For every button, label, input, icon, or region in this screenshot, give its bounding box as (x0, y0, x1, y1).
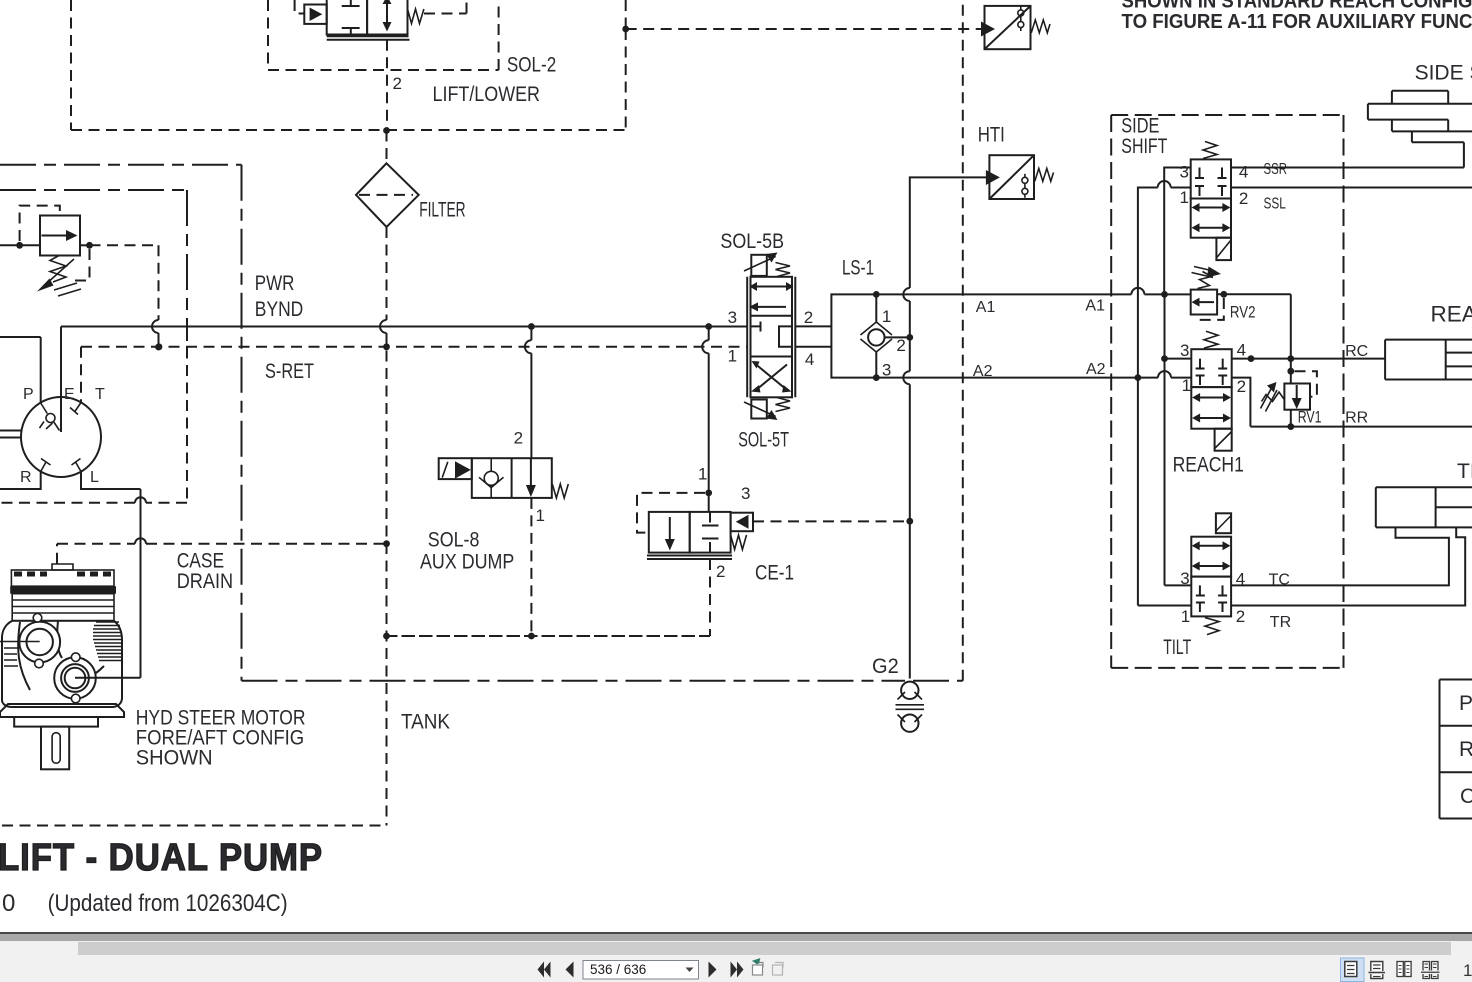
svg-text:536 / 636: 536 / 636 (590, 962, 646, 977)
wire side shift port 3 (1164, 168, 1191, 295)
enclosure steering phantom box inner (0, 190, 187, 503)
pressure switch HTI (986, 155, 1034, 199)
svg-text:A2: A2 (1086, 361, 1106, 378)
valve SOL-8 aux dump (439, 458, 552, 498)
label A2 left (973, 363, 993, 380)
solenoid SOL-2 pilot box (304, 5, 326, 24)
valve TILT (1191, 537, 1231, 617)
cylinder TILT (1376, 487, 1472, 527)
wire RV1 pilot dashed (1295, 371, 1317, 397)
wire pilot riser x=625.7 (625, 0, 627, 130)
junction S-RET / filter line (383, 343, 390, 350)
svg-text:SHOWN: SHOWN (136, 747, 213, 770)
svg-text:4: 4 (805, 350, 814, 369)
wire reach1 port 2 to RR (1232, 378, 1251, 427)
solenoid reach1 (1215, 429, 1232, 451)
wire pilot dashed to HTI top (626, 28, 981, 30)
label LS-1 (842, 257, 874, 280)
wire CE-1 port 1 (702, 323, 712, 512)
svg-text:PWR: PWR (255, 272, 295, 295)
wire tilt port 1 (1138, 378, 1191, 606)
enclosure SIDE SHIFT boundary (1111, 115, 1343, 668)
label REACH1 (1173, 454, 1244, 477)
valve CE-1 (647, 512, 732, 559)
spring HTI (1035, 168, 1054, 181)
filter F1 (356, 163, 419, 227)
spring side shift valve (1203, 142, 1217, 159)
label S-RET (265, 360, 314, 383)
valve SOL-2 body (327, 0, 408, 35)
steering check element (40, 403, 60, 431)
wire relief outlet (80, 242, 93, 249)
wire LS-1 bracket (831, 294, 876, 377)
svg-text:LS-1: LS-1 (842, 257, 874, 280)
motor M1 right boss (54, 653, 96, 703)
steering L port tick (72, 459, 82, 472)
relief valve RV1 (1284, 384, 1310, 410)
side shift carriage (1368, 91, 1472, 142)
label G2 (872, 655, 899, 678)
steering unit circle (21, 397, 101, 477)
wire steering T port dashed (80, 347, 82, 403)
layout icon continuous (1369, 962, 1386, 979)
label A2 right (1086, 361, 1106, 378)
button last page (731, 962, 744, 978)
label TILT title (1457, 460, 1472, 483)
wire tank header dashed y=636 (383, 633, 710, 640)
svg-text:1: 1 (1182, 376, 1191, 395)
motor M1 hyd steer motor top cap (11, 564, 114, 586)
label revision (2, 890, 288, 917)
label REACH title (1431, 302, 1472, 327)
wire dashed SOL-2 group lower rail (71, 129, 626, 131)
steering T port tick (70, 403, 81, 415)
steering R port tick (41, 459, 51, 472)
junction LS-1 ports (873, 291, 913, 381)
svg-text:RV1: RV1 (1298, 408, 1322, 427)
wire G2 line (903, 177, 989, 678)
motor M1 left boss (0, 614, 60, 668)
wire RR (1250, 426, 1472, 428)
wire SSL (1231, 187, 1472, 189)
motor M1 shaft (41, 727, 69, 770)
svg-text:LIFT/LOWER: LIFT/LOWER (433, 83, 541, 106)
wire SSR (1231, 142, 1464, 167)
wire RC (1232, 355, 1385, 362)
solenoid CE-1 pilot (731, 513, 753, 532)
button next page (709, 962, 717, 978)
wire relief inlet (0, 242, 40, 249)
motor M1 base (0, 704, 124, 727)
label TANK (401, 711, 450, 734)
svg-text:RC: RC (1345, 343, 1368, 360)
label LS-1 ports (882, 307, 906, 379)
label LIFT/LOWER (433, 83, 541, 106)
svg-text:SOL-5B: SOL-5B (720, 230, 784, 253)
label SOL-8 AUX DUMP (420, 529, 514, 574)
button previous view (753, 959, 764, 975)
spring relief adjustable (37, 256, 81, 297)
svg-text:TANK: TANK (401, 711, 450, 734)
layout icon two pages (1397, 962, 1411, 977)
wire PWR BYND main (61, 326, 748, 328)
wire SOL-8 port 1 dashed (530, 498, 532, 636)
wire steering L line (75, 472, 141, 678)
svg-text:1: 1 (882, 307, 891, 326)
svg-text:RE: RE (1459, 738, 1472, 761)
svg-text:TILT: TILT (1163, 636, 1191, 659)
spring RV2 adjustable (1192, 267, 1222, 289)
svg-text:1: 1 (1463, 961, 1472, 980)
gauge port G2 symbol (896, 682, 925, 732)
valve SOL-5B/5T body (747, 277, 795, 398)
svg-text:PR: PR (1459, 692, 1472, 715)
shuttle valve LS-1 (861, 294, 910, 377)
label title LIFT - DUAL PUMP (0, 837, 323, 879)
label A1 right (1085, 298, 1105, 315)
wire side shift port 1 / SSL left (1138, 181, 1191, 378)
label SOL-2 port 2 (393, 74, 402, 93)
label SSR (1264, 161, 1288, 178)
wire CASE DRAIN dashed (57, 538, 390, 564)
svg-text:3: 3 (882, 360, 891, 379)
svg-text:SIDE SHIFT: SIDE SHIFT (1415, 61, 1472, 84)
label header bold line1 (1122, 0, 1472, 13)
svg-text:AUX DUMP: AUX DUMP (420, 551, 514, 574)
svg-text:DRAIN: DRAIN (177, 570, 233, 593)
valve SOL-5B/5T solenoid bottom (744, 400, 778, 421)
wire SOL-5 port 2 (795, 325, 831, 327)
svg-text:SOL-8: SOL-8 (428, 529, 480, 552)
label header bold line2 (1122, 11, 1472, 33)
svg-text:2: 2 (896, 336, 905, 355)
svg-text:CA: CA (1460, 785, 1472, 808)
wire dashed riser top-left (70, 0, 72, 130)
label CE-1 ports (698, 465, 750, 582)
motor M1 casting body (2, 621, 122, 707)
junction SOL-2 rail / pilot riser (622, 26, 629, 33)
svg-text:A1: A1 (1085, 298, 1105, 315)
label SSL (1264, 196, 1286, 213)
enclosure SOL-2 group dashed box (268, 0, 499, 70)
solenoid side shift (1216, 238, 1231, 260)
svg-text:S-RET: S-RET (265, 360, 314, 383)
svg-text:SOL-2: SOL-2 (507, 54, 556, 77)
label SOL-5B (720, 230, 784, 253)
filter line dashed riser (380, 131, 387, 826)
label tilt ports (1180, 569, 1245, 626)
svg-text:A2: A2 (973, 363, 993, 380)
motor M1 upper body (12, 594, 114, 621)
table legend bottom right (1440, 680, 1472, 819)
junction filter line / SOL-2 rail (383, 127, 390, 134)
valve SOL-5B/5T solenoid top (744, 253, 778, 276)
layout icon single page active (1341, 958, 1365, 982)
svg-text:HTI: HTI (978, 124, 1005, 147)
zoom level text (1463, 961, 1472, 980)
spring SOL-2 (408, 9, 424, 24)
spring top box (1031, 20, 1050, 33)
wire CE-1 pilot loop dashed (637, 493, 705, 533)
svg-text:L: L (90, 469, 99, 486)
enclosure steering phantom box outer (0, 0, 963, 681)
motor M1 seal band (10, 586, 116, 594)
spring SOL-8 (552, 484, 568, 498)
svg-text:FILTER: FILTER (419, 199, 465, 222)
wire TC (1231, 527, 1449, 585)
valve SIDE SHIFT (1191, 159, 1231, 237)
junction A1 at reach feed (1161, 291, 1168, 298)
svg-text:LIFT - DUAL PUMP: LIFT - DUAL PUMP (0, 837, 323, 879)
label A1 left (976, 299, 996, 316)
svg-text:2: 2 (804, 308, 813, 327)
label SOL-5T (738, 429, 789, 452)
svg-text:2: 2 (1236, 607, 1245, 626)
page number field (583, 961, 699, 980)
relief valve RV2 (1191, 290, 1217, 315)
svg-text:2: 2 (716, 562, 725, 581)
wire A2 main (876, 371, 1190, 377)
wire reach1 port 3 (1161, 355, 1191, 362)
steering wheel shaft (0, 431, 22, 438)
wire steering R line (0, 472, 41, 490)
pressure switch top box (981, 6, 1031, 49)
layout icon two page continuous (1421, 962, 1440, 979)
spring tilt valve (1205, 618, 1219, 635)
wire SOL-2 pilot dashed left (295, 0, 305, 14)
svg-text:SSR: SSR (1264, 161, 1288, 178)
label SIDE SHIFT title (1415, 61, 1472, 84)
svg-text:1: 1 (728, 346, 737, 365)
svg-text:REACH1: REACH1 (1173, 454, 1244, 477)
label SIDE SHIFT (1121, 115, 1167, 158)
label RV2 (1230, 303, 1256, 322)
valve SOL-2 underplate (327, 36, 410, 40)
wire relief spring drain dashed (72, 249, 90, 281)
wire CE-1 port 3 pilot dashed (753, 520, 910, 522)
label SOL-5 ports (728, 308, 815, 369)
spring SOL-5T (776, 398, 791, 412)
wire RV2 outlet (1217, 291, 1291, 359)
svg-text:0: 0 (2, 890, 15, 917)
valve REACH1 (1191, 349, 1231, 429)
wire TR (1231, 527, 1465, 605)
label CASE DRAIN (177, 549, 233, 593)
svg-text:4: 4 (1237, 341, 1246, 360)
label RR (1345, 410, 1368, 427)
label TILT (1163, 636, 1191, 659)
svg-text:3: 3 (1180, 341, 1189, 360)
label TC TR (1269, 572, 1292, 631)
label RC (1345, 343, 1368, 360)
label RV1 (1298, 408, 1322, 427)
svg-text:RR: RR (1345, 410, 1368, 427)
svg-text:3: 3 (728, 308, 737, 327)
button first page (538, 962, 551, 978)
svg-text:E: E (64, 386, 75, 403)
wire relief drain dashed (90, 245, 162, 350)
wire SOL-5 port 4 (795, 346, 831, 348)
wire SOL-8 port 2 (525, 323, 535, 458)
svg-text:T: T (95, 386, 105, 403)
label steering ports (20, 386, 105, 486)
wire tilt port 3 (1165, 584, 1192, 586)
spring reach1 valve (1204, 331, 1218, 348)
button next view disabled (773, 963, 784, 976)
svg-text:1: 1 (698, 465, 707, 484)
svg-text:2: 2 (393, 74, 402, 93)
svg-text:SHIFT: SHIFT (1121, 135, 1167, 158)
svg-text:TILT: TILT (1457, 460, 1472, 483)
svg-text:3: 3 (1180, 162, 1189, 181)
solenoid tilt (1216, 513, 1231, 533)
label SOL-8 port 1 (536, 506, 545, 525)
svg-text:G2: G2 (872, 655, 899, 678)
label reach1 ports (1180, 341, 1246, 396)
wire RV2 pilot dashed (1199, 298, 1224, 320)
svg-text:TO FIGURE A-11 FOR AUXILIARY F: TO FIGURE A-11 FOR AUXILIARY FUNCTIONS (1122, 11, 1472, 33)
svg-text:SOL-5T: SOL-5T (738, 429, 789, 452)
label HYD STEER MOTOR (136, 707, 306, 770)
label SOL-8 port 2 (514, 429, 523, 448)
svg-text:1: 1 (1181, 607, 1190, 626)
junction A2 at tilt feed (1135, 374, 1142, 381)
svg-text:3: 3 (741, 484, 750, 503)
button previous page (566, 962, 574, 978)
enclosure TANK bottom dashed (2, 825, 387, 827)
svg-text:CE-1: CE-1 (755, 562, 794, 585)
svg-text:(Updated from 1026304C): (Updated from 1026304C) (48, 890, 288, 917)
svg-text:1: 1 (1180, 188, 1189, 207)
svg-text:TR: TR (1270, 614, 1291, 631)
label FILTER (419, 199, 465, 222)
label SOL-2 (507, 54, 556, 77)
label side shift ports (1180, 162, 1249, 208)
label CE-1 (755, 562, 794, 585)
label HTI (978, 124, 1005, 147)
wire SOL-2 port 2 dashed down (386, 40, 388, 131)
svg-text:4: 4 (1239, 162, 1248, 181)
wire SOL-2 pilot dashed right (424, 0, 467, 14)
svg-text:P: P (23, 386, 34, 403)
svg-text:1: 1 (536, 506, 545, 525)
spring RV1 adjustable (1261, 382, 1284, 412)
junction S-RET / relief drain (156, 343, 163, 350)
wire S-RET dashed main (81, 346, 748, 348)
wire A1 main (876, 288, 1190, 295)
svg-text:2: 2 (1237, 377, 1246, 396)
svg-text:R: R (20, 469, 32, 486)
label PWR BYND (255, 272, 303, 321)
svg-text:A1: A1 (976, 299, 996, 316)
wire CE-1 port 2 dashed (390, 559, 710, 636)
wire reach1 riser to TC (1164, 294, 1166, 585)
svg-text:REACH: REACH (1431, 302, 1472, 327)
wire relief pilot dashed (20, 206, 60, 241)
svg-text:2: 2 (514, 429, 523, 448)
relief valve steering (40, 216, 80, 256)
spring CE-1 (731, 535, 747, 550)
cylinder REACH (1385, 340, 1472, 380)
wire steering P port (0, 337, 41, 403)
svg-text:BYND: BYND (255, 298, 303, 321)
wire steering E port riser (60, 327, 62, 433)
svg-text:SSL: SSL (1264, 196, 1286, 213)
svg-text:RV2: RV2 (1230, 303, 1256, 322)
svg-text:2: 2 (1239, 189, 1248, 208)
wire RV1 riser (1287, 359, 1294, 430)
spring SOL-5B (776, 263, 791, 277)
